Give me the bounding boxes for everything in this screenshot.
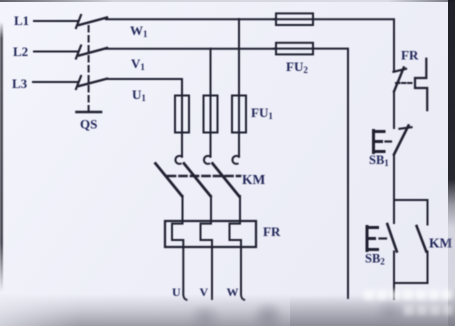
svg-text:SB1: SB1 [369, 153, 389, 168]
photo right edge strip [448, 0, 455, 326]
wire column 2 from V1 through FU1 [210, 49, 212, 156]
FR contact dashed link [396, 82, 414, 84]
SB1 contact blade [394, 126, 409, 155]
wire column 3 from W1 through FU1 [238, 19, 240, 156]
watermark logo blob left-center [185, 306, 225, 326]
wire V1 [106, 48, 276, 50]
FR contact blade [394, 68, 404, 92]
wire FU2 b to left control rail [274, 49, 348, 298]
wire KM aux to bottom bar [427, 252, 429, 284]
SB2 actuator dash [380, 237, 387, 239]
wire U1 [106, 79, 182, 96]
svg-text:W1: W1 [130, 23, 148, 39]
wire SB1 to junction [393, 155, 395, 224]
wire L3 lead [33, 81, 77, 83]
FR contact seat tick [394, 69, 407, 72]
svg-text:L3: L3 [12, 76, 28, 91]
wire below KM contact 3 [239, 196, 241, 221]
wire FU2 a to FR contact [274, 19, 394, 71]
fuse FU1 c [232, 96, 246, 133]
wire below KM contact 1 [182, 196, 184, 221]
thermal relay FR box [165, 221, 256, 247]
SB1 button actuator E [374, 131, 385, 153]
svg-text:FR: FR [263, 224, 281, 239]
QS linkage dashed [88, 26, 90, 110]
watermark text line 2 (simulated blurred glyph blocks) [404, 305, 455, 315]
svg-text:L2: L2 [13, 44, 28, 59]
svg-text:KM: KM [242, 172, 266, 187]
watermark text line 1 (simulated blurred glyph blocks) [364, 290, 455, 300]
KM main contact 2 hook [204, 156, 211, 164]
FR heater element 1 and wire to U [172, 221, 187, 300]
QS handle bar [77, 111, 102, 114]
fuse FU1 a [175, 96, 189, 133]
watermark logo blob right [374, 299, 406, 326]
svg-text:L1: L1 [14, 13, 29, 28]
photo top edge line [0, 0, 455, 2]
KM main contact 3 blade [213, 164, 240, 197]
wire FR to SB1 [393, 92, 395, 129]
wire W1 [106, 18, 276, 20]
fuse FU1 b [204, 96, 218, 133]
QS pole 3 blade [79, 79, 107, 86]
QS pole 1 blade [79, 18, 107, 26]
KM main contact 1 blade [156, 164, 183, 197]
QS pole 2 contact tick [76, 46, 81, 59]
bottom shade band [0, 294, 455, 326]
parallel branch top bar [394, 200, 428, 225]
svg-text:FR: FR [401, 48, 419, 63]
control fuse FU2 a [276, 13, 313, 25]
KM aux contact blade [417, 226, 427, 252]
svg-text:SB2: SB2 [365, 252, 385, 267]
QS pole 3 contact tick [76, 76, 81, 89]
QS pole 2 blade [79, 48, 107, 56]
svg-text:FU1: FU1 [251, 105, 273, 121]
KM linkage dashed [168, 175, 240, 178]
KM main contact 2 blade [184, 164, 211, 197]
QS pole 1 contact tick [76, 15, 81, 28]
FR heater element 3 and wire to W [230, 221, 245, 300]
wire L1 lead [34, 20, 77, 22]
wire SB2 to bottom bar [393, 252, 395, 284]
svg-text:FU2: FU2 [286, 59, 308, 75]
SB1 actuator dash [386, 140, 392, 142]
wire column 1 through FU1 [181, 96, 183, 157]
SB2 button actuator E [367, 227, 378, 251]
photo left edge strip [0, 22, 3, 292]
svg-text:V1: V1 [131, 56, 145, 72]
wire below KM contact 2 [210, 196, 212, 221]
FR thermal release symbol [415, 59, 427, 110]
FR heater element 2 and wire to V [201, 221, 213, 299]
bottom right shade [290, 296, 455, 326]
parallel branch bottom bar [394, 282, 428, 284]
SB2 contact blade [387, 224, 397, 252]
svg-text:U1: U1 [132, 87, 146, 103]
bottom left corner lightener [0, 296, 80, 326]
KM main contact 3 hook [232, 156, 239, 164]
control fuse FU2 b [276, 43, 313, 55]
wire L2 lead [34, 51, 77, 53]
KM main contact 1 hook [175, 156, 182, 164]
wire control rail bottom [393, 283, 395, 299]
svg-text:QS: QS [80, 117, 97, 132]
SB1 contact tick [400, 127, 412, 129]
watermark logo blob center [250, 302, 286, 326]
